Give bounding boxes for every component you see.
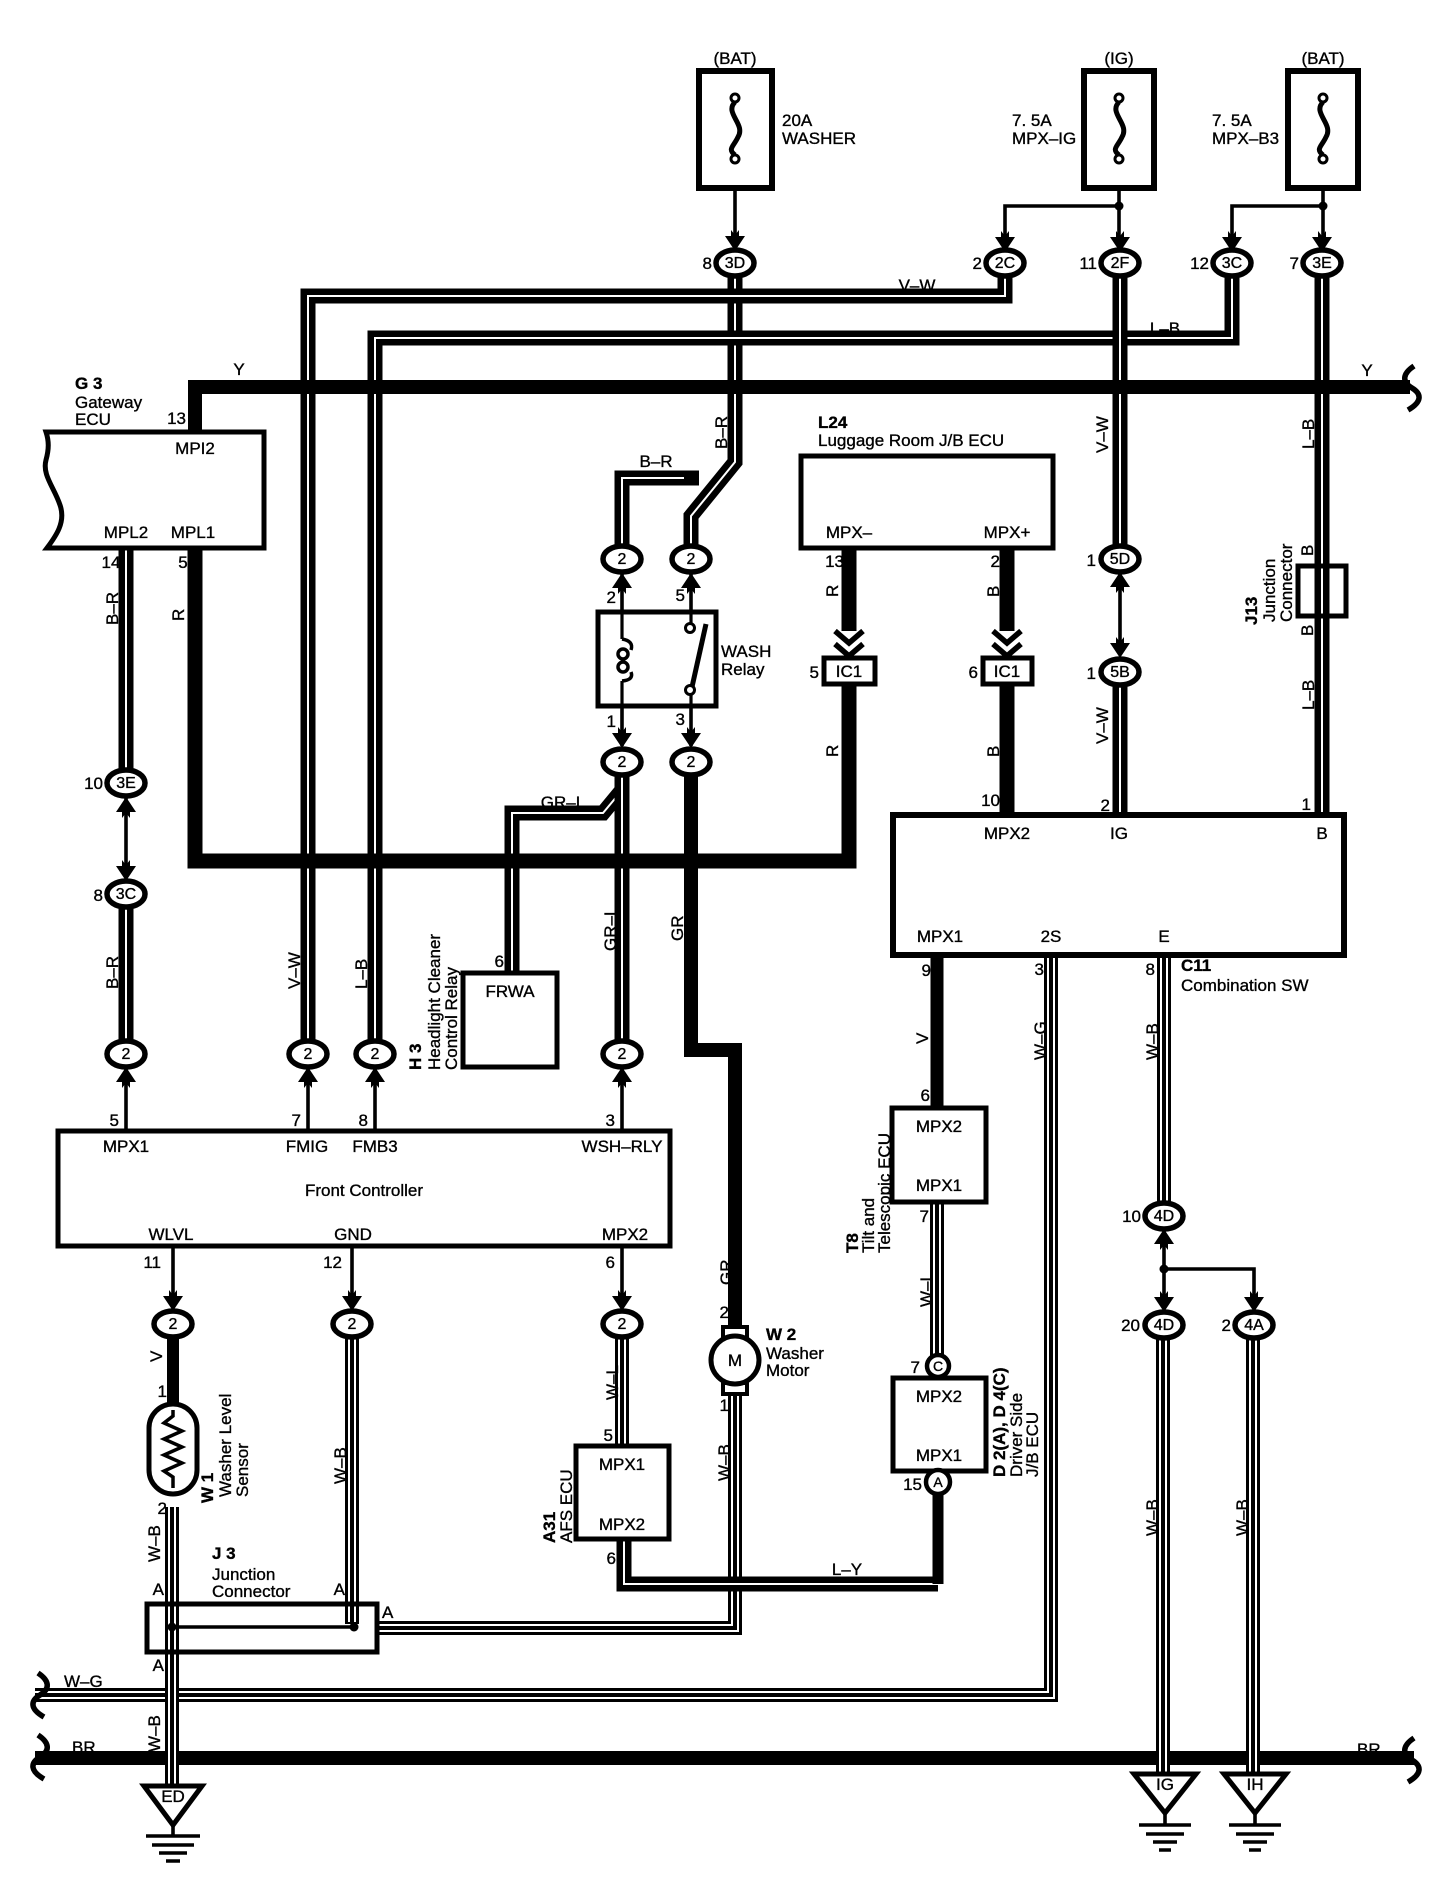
wire W-B from Front Controller GND to J3 junction connector xyxy=(345,1337,359,1624)
connector oval relay pin 2 xyxy=(603,546,641,572)
wire stub ground IG xyxy=(1163,1813,1167,1825)
svg-text:MPX2: MPX2 xyxy=(602,1225,648,1244)
svg-text:MPX–B3: MPX–B3 xyxy=(1212,129,1279,148)
svg-text:A: A xyxy=(933,1474,943,1490)
svg-text:B–R: B–R xyxy=(103,956,122,989)
svg-text:20: 20 xyxy=(1121,1316,1140,1335)
arrow down into connector 3C lower xyxy=(116,860,136,881)
svg-text:J13: J13 xyxy=(1242,597,1261,625)
svg-text:11: 11 xyxy=(143,1253,161,1272)
chevron arrow into left IC1 xyxy=(835,631,863,656)
svg-text:12: 12 xyxy=(323,1253,342,1272)
wire V-W from connector 2F to connector 5D xyxy=(1113,276,1128,547)
svg-text:Front Controller: Front Controller xyxy=(305,1181,423,1200)
connector J3 junction box xyxy=(147,1604,377,1652)
svg-text:BR: BR xyxy=(1357,1740,1381,1759)
wire W-L from Front Controller MPX2 to A31 pin 5 xyxy=(615,1337,629,1446)
svg-text:12: 12 xyxy=(1190,254,1209,273)
svg-text:W–B: W–B xyxy=(331,1447,350,1484)
wire B-R branch to WASH relay pin 2 xyxy=(622,478,699,546)
wire B stub from L24 MPX+ pin 2 xyxy=(1000,548,1015,631)
fuse element MPX-B3 xyxy=(1319,94,1328,163)
wire branch from node to connector 4A xyxy=(1164,1269,1254,1308)
svg-text:W–B: W–B xyxy=(145,1525,164,1562)
svg-text:2: 2 xyxy=(1222,1316,1231,1335)
connector oval 5D xyxy=(1101,546,1139,572)
svg-text:MPX1: MPX1 xyxy=(599,1455,645,1474)
break symbol Y bus right xyxy=(1405,366,1419,410)
wire stub WASH relay pin 2 xyxy=(620,574,624,612)
svg-text:7: 7 xyxy=(1290,254,1299,273)
arrow down into connector 4D lower xyxy=(1154,1291,1174,1312)
wire W-B from C11 E pin 8 to connector 4D xyxy=(1157,955,1171,1204)
arrow up into Front Controller pin 3 connector xyxy=(612,1067,632,1088)
connector oval relay pin 1 xyxy=(603,749,641,775)
svg-text:GR: GR xyxy=(668,916,687,942)
arrow into connector 2C xyxy=(995,231,1015,252)
wire L-Y from A31 pin 6 to connector A xyxy=(624,1539,938,1584)
svg-text:B: B xyxy=(1316,824,1327,843)
svg-text:6: 6 xyxy=(969,663,978,682)
svg-text:W–G: W–G xyxy=(64,1672,103,1691)
svg-text:Relay: Relay xyxy=(721,660,765,679)
svg-text:E: E xyxy=(1158,927,1169,946)
break symbol BR bus right xyxy=(1405,1738,1419,1782)
svg-text:3E: 3E xyxy=(116,775,136,792)
svg-text:IG: IG xyxy=(1110,824,1128,843)
node junction dot at MPX-B3 fuse xyxy=(1319,202,1328,211)
svg-text:Telescopic ECU: Telescopic ECU xyxy=(875,1133,894,1253)
svg-text:8: 8 xyxy=(1146,960,1155,979)
arrow down into connector 4A xyxy=(1244,1291,1264,1312)
svg-text:15: 15 xyxy=(903,1475,922,1494)
svg-text:W–B: W–B xyxy=(1143,1499,1162,1536)
svg-text:2: 2 xyxy=(687,754,696,771)
svg-text:2: 2 xyxy=(618,1316,627,1333)
ECU G3 Gateway box with torn left edge xyxy=(45,432,264,548)
svg-text:B: B xyxy=(984,586,1003,597)
arrow down into connector below relay pin 1 xyxy=(612,727,632,748)
ground IG triangle xyxy=(1134,1774,1196,1813)
svg-text:L–Y: L–Y xyxy=(832,1560,862,1579)
wire B from IC1 to C11 MPX2 pin 10 xyxy=(1000,684,1015,815)
svg-text:10: 10 xyxy=(981,791,1000,810)
wire link below connector 4D xyxy=(1162,1230,1166,1308)
svg-text:7. 5A: 7. 5A xyxy=(1012,111,1052,130)
svg-text:14: 14 xyxy=(102,553,121,572)
svg-text:10: 10 xyxy=(1122,1207,1141,1226)
svg-text:A: A xyxy=(334,1580,346,1599)
svg-text:C11: C11 xyxy=(1181,956,1211,975)
svg-text:W–L: W–L xyxy=(917,1272,936,1307)
svg-text:2: 2 xyxy=(607,588,616,607)
svg-text:5: 5 xyxy=(810,663,819,682)
svg-text:J 3: J 3 xyxy=(212,1544,236,1563)
wire from fuse MPX-B3 to connector 3E xyxy=(1321,163,1325,236)
connector oval 3E left chain xyxy=(107,770,145,796)
ground ED hatch xyxy=(146,1836,200,1861)
svg-text:Motor: Motor xyxy=(766,1361,810,1380)
svg-text:A: A xyxy=(153,1656,165,1675)
svg-text:5: 5 xyxy=(178,553,187,572)
wire R from G3 MPL1 pin 5 to L24 IC1 xyxy=(195,548,849,861)
svg-text:IG: IG xyxy=(1156,1775,1174,1794)
svg-text:MPL1: MPL1 xyxy=(171,523,215,542)
wire R stub from L24 MPX- pin 13 xyxy=(842,548,857,631)
svg-text:3E: 3E xyxy=(1312,255,1332,272)
svg-text:(IG): (IG) xyxy=(1104,49,1133,68)
svg-text:G 3: G 3 xyxy=(75,374,102,393)
svg-text:AFS ECU: AFS ECU xyxy=(557,1469,576,1543)
svg-text:W–B: W–B xyxy=(145,1715,164,1752)
svg-text:C: C xyxy=(933,1358,943,1374)
svg-text:6: 6 xyxy=(607,1549,616,1568)
svg-text:GR–L: GR–L xyxy=(601,907,620,951)
arrow up into connector 4D upper xyxy=(1154,1229,1174,1250)
svg-text:MPX2: MPX2 xyxy=(916,1387,962,1406)
svg-text:W–L: W–L xyxy=(603,1365,622,1400)
fuse 20A WASHER box xyxy=(699,71,772,188)
wire stub Front Controller pin 8 xyxy=(373,1068,377,1131)
node junction dot at MPX-IG fuse xyxy=(1115,202,1124,211)
svg-text:3C: 3C xyxy=(116,886,136,903)
wire stub Front Controller pin 7 xyxy=(306,1068,310,1131)
svg-text:8: 8 xyxy=(359,1111,368,1130)
svg-text:5: 5 xyxy=(676,586,685,605)
wire stub Front Controller pin 3 xyxy=(620,1068,624,1131)
svg-text:R: R xyxy=(169,609,188,621)
arrow into connector 2F xyxy=(1110,231,1130,252)
svg-text:9: 9 xyxy=(922,961,931,980)
svg-text:R: R xyxy=(823,745,842,757)
connector circle C at D2 xyxy=(927,1355,949,1377)
svg-text:2: 2 xyxy=(348,1316,357,1333)
svg-text:2: 2 xyxy=(973,254,982,273)
arrow up into Front Controller pin 8 connector xyxy=(365,1067,385,1088)
ECU A31 AFS box xyxy=(576,1446,669,1539)
arrow up into WASH relay pin 2 connector xyxy=(612,573,632,594)
IC1 right box xyxy=(983,658,1032,684)
arrow up into Front Controller pin 5 connector xyxy=(116,1067,136,1088)
motor W2 washer body xyxy=(711,1336,759,1384)
svg-text:2: 2 xyxy=(304,1046,313,1063)
connector oval 4D lower xyxy=(1145,1312,1183,1338)
svg-text:13: 13 xyxy=(825,552,844,571)
svg-text:BR: BR xyxy=(72,1738,96,1757)
wire W-B from washer level sensor pin 2 through J3 to ground ED xyxy=(165,1507,179,1786)
wire BR ground bus xyxy=(35,1751,1414,1765)
connector oval Front Controller pin 3 xyxy=(603,1041,641,1067)
connector J13 box xyxy=(1298,566,1346,616)
connector oval 3C left chain xyxy=(107,881,145,907)
svg-text:5B: 5B xyxy=(1110,664,1130,681)
svg-text:Y: Y xyxy=(1361,361,1372,380)
svg-text:V–W: V–W xyxy=(285,952,304,989)
connector oval 3D xyxy=(716,250,754,276)
svg-text:2: 2 xyxy=(371,1046,380,1063)
wire W-B from washer motor pin 1 to J3 pin A xyxy=(377,1394,735,1628)
node junction dot below connector 4D xyxy=(1160,1265,1169,1274)
svg-text:6: 6 xyxy=(495,952,504,971)
svg-text:MPX2: MPX2 xyxy=(916,1117,962,1136)
svg-text:2: 2 xyxy=(618,1046,627,1063)
svg-text:ED: ED xyxy=(161,1787,185,1806)
arrow into connector 3D xyxy=(725,230,745,251)
svg-text:3: 3 xyxy=(1035,960,1044,979)
svg-text:8: 8 xyxy=(703,254,712,273)
svg-text:H 3: H 3 xyxy=(406,1044,425,1070)
IC1 left box xyxy=(824,658,875,684)
svg-text:W 2: W 2 xyxy=(766,1325,796,1344)
svg-text:Control Relay: Control Relay xyxy=(442,967,461,1070)
wire from fuse MPX-IG to connector 2F xyxy=(1117,163,1121,236)
svg-text:W 1: W 1 xyxy=(198,1473,217,1503)
fuse element 20A WASHER xyxy=(731,94,740,163)
svg-text:3: 3 xyxy=(676,710,685,729)
svg-text:Connector: Connector xyxy=(1277,543,1296,622)
svg-text:2: 2 xyxy=(618,754,627,771)
svg-text:MPX1: MPX1 xyxy=(103,1137,149,1156)
wire stub WASH relay pin 5 xyxy=(689,574,693,612)
svg-text:M: M xyxy=(728,1351,742,1370)
svg-text:L24: L24 xyxy=(818,413,848,432)
wire stub WASH relay pin 3 xyxy=(689,706,693,746)
svg-text:IC1: IC1 xyxy=(836,662,862,681)
svg-text:1: 1 xyxy=(1087,551,1096,570)
svg-text:4A: 4A xyxy=(1244,1317,1264,1334)
svg-text:A: A xyxy=(153,1580,165,1599)
svg-text:7: 7 xyxy=(292,1111,301,1130)
svg-text:1: 1 xyxy=(1087,664,1096,683)
svg-text:7: 7 xyxy=(911,1358,920,1377)
svg-text:2: 2 xyxy=(991,552,1000,571)
wire link between connectors 5D and 5B xyxy=(1118,573,1122,652)
svg-text:5: 5 xyxy=(110,1111,119,1130)
arrow down into connector below relay pin 3 xyxy=(681,727,701,748)
svg-text:GR: GR xyxy=(717,1260,736,1286)
connector oval relay pin 3 xyxy=(672,749,710,775)
ECU C11 feed box xyxy=(893,815,1344,955)
motor W2 washer top terminal xyxy=(723,1327,747,1338)
svg-text:L–B: L–B xyxy=(1150,319,1180,338)
connector oval 3C xyxy=(1213,250,1251,276)
sensor W1 washer level capsule xyxy=(149,1404,197,1494)
svg-text:A: A xyxy=(382,1603,394,1622)
svg-text:GND: GND xyxy=(334,1225,372,1244)
svg-text:GR–L: GR–L xyxy=(541,793,585,812)
svg-text:2: 2 xyxy=(169,1316,178,1333)
svg-text:FRWA: FRWA xyxy=(485,982,535,1001)
wire L-Y riser to connector A xyxy=(933,1493,944,1584)
connector oval Front Controller pin 12 xyxy=(333,1311,371,1337)
svg-text:IC1: IC1 xyxy=(994,662,1020,681)
relay WASH switch xyxy=(686,612,707,706)
svg-text:V–W: V–W xyxy=(899,276,936,295)
wire stub WASH relay pin 1 xyxy=(620,706,624,746)
ECU Front Controller box xyxy=(58,1131,670,1246)
svg-text:B: B xyxy=(1298,545,1317,556)
connector oval Front Controller pin 11 xyxy=(154,1311,192,1337)
motor W2 washer bottom terminal xyxy=(723,1383,747,1394)
svg-text:2C: 2C xyxy=(995,255,1015,272)
svg-text:L–B: L–B xyxy=(352,959,371,989)
svg-text:1: 1 xyxy=(607,712,616,731)
wire L-B from connector 3E through J13 to C11 B pin 1 xyxy=(1315,276,1330,815)
svg-text:MPI2: MPI2 xyxy=(175,439,215,458)
ground ED triangle xyxy=(144,1786,202,1825)
svg-text:IH: IH xyxy=(1247,1775,1264,1794)
svg-text:W–G: W–G xyxy=(1031,1021,1050,1060)
svg-text:Connector: Connector xyxy=(212,1582,291,1601)
svg-text:MPX1: MPX1 xyxy=(916,1446,962,1465)
wire V from C11 MPX1 pin 9 to T8 MPX2 pin 6 xyxy=(931,955,944,1108)
relay WASH box xyxy=(598,612,716,706)
svg-text:MPX+: MPX+ xyxy=(984,523,1031,542)
wire link between connectors 3E and 3C xyxy=(124,797,128,878)
arrow down into connector 5B xyxy=(1110,637,1130,658)
svg-text:L–B: L–B xyxy=(1299,680,1318,710)
J3 internal wire and junction dots xyxy=(172,1626,354,1629)
svg-text:V: V xyxy=(147,1350,166,1362)
svg-text:MPX1: MPX1 xyxy=(916,1176,962,1195)
svg-text:MPX2: MPX2 xyxy=(984,824,1030,843)
relay FRWA Headlight Cleaner Control box xyxy=(463,973,557,1067)
svg-text:WSH–RLY: WSH–RLY xyxy=(582,1137,663,1156)
svg-text:B–R: B–R xyxy=(712,416,731,449)
connector oval 2F xyxy=(1101,250,1139,276)
svg-text:B: B xyxy=(1298,625,1317,636)
relay WASH coil xyxy=(618,612,632,706)
svg-text:2: 2 xyxy=(618,551,627,568)
svg-text:1: 1 xyxy=(1302,795,1311,814)
svg-text:2S: 2S xyxy=(1041,927,1062,946)
svg-text:2: 2 xyxy=(1101,796,1110,815)
arrow down into Front Controller pin 6 connector xyxy=(612,1290,632,1311)
connector oval 4D upper xyxy=(1145,1203,1183,1229)
svg-text:B–R: B–R xyxy=(103,592,122,625)
ECU D2 D4 Driver Side J/B box xyxy=(893,1378,986,1471)
svg-text:Y: Y xyxy=(233,360,244,379)
svg-text:J/B ECU: J/B ECU xyxy=(1023,1412,1042,1477)
svg-text:WASH: WASH xyxy=(721,642,771,661)
fuse element MPX-IG xyxy=(1115,94,1124,163)
arrow down into Front Controller pin 11 connector xyxy=(163,1290,183,1311)
thin fuse tails and connector links xyxy=(126,163,1323,1836)
svg-text:V–W: V–W xyxy=(1093,707,1112,744)
ECU L24 Luggage Room J/B box xyxy=(801,456,1053,548)
svg-text:FMIG: FMIG xyxy=(286,1137,329,1156)
svg-text:1: 1 xyxy=(158,1382,167,1401)
wire W-B from connector 4D to ground IG xyxy=(1156,1338,1170,1774)
svg-text:4D: 4D xyxy=(1154,1208,1174,1225)
svg-text:W–B: W–B xyxy=(715,1444,734,1481)
svg-text:7. 5A: 7. 5A xyxy=(1212,111,1252,130)
svg-text:2: 2 xyxy=(720,1303,729,1322)
wire V from Front Controller WLVL to washer level sensor pin 1 xyxy=(167,1337,179,1404)
wire W-L from T8 MPX1 pin 7 to connector C xyxy=(930,1202,944,1356)
wire V-W from connector 5B to C11 IG pin 2 xyxy=(1113,684,1128,815)
break symbol W-G bus left xyxy=(33,1673,47,1717)
ECU T8 Tilt and Telescopic box xyxy=(892,1108,986,1202)
wire GR from WASH relay pin 3 to washer motor pin 2 xyxy=(691,775,735,1327)
svg-text:6: 6 xyxy=(606,1253,615,1272)
connector oval 3E xyxy=(1303,250,1341,276)
svg-text:W–B: W–B xyxy=(1143,1023,1162,1060)
arrow into connector 3C xyxy=(1222,231,1242,252)
arrow down into Front Controller pin 12 connector xyxy=(342,1290,362,1311)
svg-text:3D: 3D xyxy=(725,255,745,272)
svg-text:V–W: V–W xyxy=(1093,416,1112,453)
svg-text:20A: 20A xyxy=(782,111,813,130)
svg-text:11: 11 xyxy=(1079,254,1097,273)
svg-text:MPX1: MPX1 xyxy=(917,927,963,946)
wire stub Front Controller pin 6 xyxy=(620,1246,624,1308)
svg-text:V: V xyxy=(913,1032,932,1044)
connector circle A at D2 xyxy=(926,1470,950,1494)
arrow up into connector 3E lower xyxy=(116,797,136,818)
svg-text:3: 3 xyxy=(606,1111,615,1130)
wire branch from node to connector 3C xyxy=(1232,206,1323,236)
svg-text:5: 5 xyxy=(604,1426,613,1445)
svg-text:MPX2: MPX2 xyxy=(599,1515,645,1534)
wire W-B from connector 4A to ground IH xyxy=(1246,1338,1260,1774)
fuse MPX-B3 box xyxy=(1288,71,1358,188)
arrow up into WASH relay pin 5 connector xyxy=(681,573,701,594)
wire Y bus from G3 MPI2 pin 13 across top xyxy=(195,387,1410,432)
svg-text:2: 2 xyxy=(687,551,696,568)
svg-text:WASHER: WASHER xyxy=(782,129,856,148)
svg-text:5D: 5D xyxy=(1110,551,1130,568)
svg-text:(BAT): (BAT) xyxy=(713,49,756,68)
svg-text:(BAT): (BAT) xyxy=(1301,49,1344,68)
svg-text:W–B: W–B xyxy=(1233,1499,1252,1536)
fuse MPX-IG box xyxy=(1084,71,1154,188)
svg-text:8: 8 xyxy=(94,886,103,905)
wire stub Front Controller pin 5 xyxy=(124,1068,128,1131)
wire B-R from G3 MPL2 to connector 3E xyxy=(119,548,134,771)
arrow into connector 3E xyxy=(1312,231,1332,252)
svg-text:2: 2 xyxy=(158,1499,167,1518)
svg-text:B: B xyxy=(984,746,1003,757)
connector oval Front Controller pin 8 xyxy=(356,1041,394,1067)
resistor zigzag in washer level sensor W1 xyxy=(164,1410,182,1488)
svg-text:R: R xyxy=(823,585,842,597)
svg-text:1: 1 xyxy=(720,1396,729,1415)
svg-text:3C: 3C xyxy=(1222,255,1242,272)
svg-text:B–R: B–R xyxy=(639,452,672,471)
wire B-R from connector 3D to WASH relay pin 5 xyxy=(691,276,735,546)
wire W-G from C11 2S pin 3 to left break xyxy=(35,955,1051,1695)
wire stub Front Controller pin 11 xyxy=(171,1246,175,1308)
svg-text:MPX–: MPX– xyxy=(826,523,873,542)
chevron arrow into right IC1 xyxy=(993,631,1021,656)
break symbol BR bus left xyxy=(33,1735,47,1779)
svg-text:13: 13 xyxy=(167,409,186,428)
svg-text:MPX–IG: MPX–IG xyxy=(1012,129,1076,148)
svg-text:2: 2 xyxy=(122,1046,131,1063)
wire L-B from connector 3C to Front Controller FMB3 xyxy=(375,276,1232,1041)
svg-text:7: 7 xyxy=(920,1207,929,1226)
svg-text:MPL2: MPL2 xyxy=(104,523,148,542)
svg-text:Combination SW: Combination SW xyxy=(1181,976,1309,995)
wire GR-L from WASH relay pin 1 to Front Controller WSH-RLY xyxy=(615,774,630,1041)
connector oval 2C xyxy=(986,250,1024,276)
svg-text:ECU: ECU xyxy=(75,410,111,429)
connector oval Front Controller pin 6 xyxy=(603,1311,641,1337)
wire stub ground IH xyxy=(1253,1813,1257,1825)
svg-text:2F: 2F xyxy=(1111,255,1130,272)
ground IH hatch xyxy=(1229,1825,1281,1850)
